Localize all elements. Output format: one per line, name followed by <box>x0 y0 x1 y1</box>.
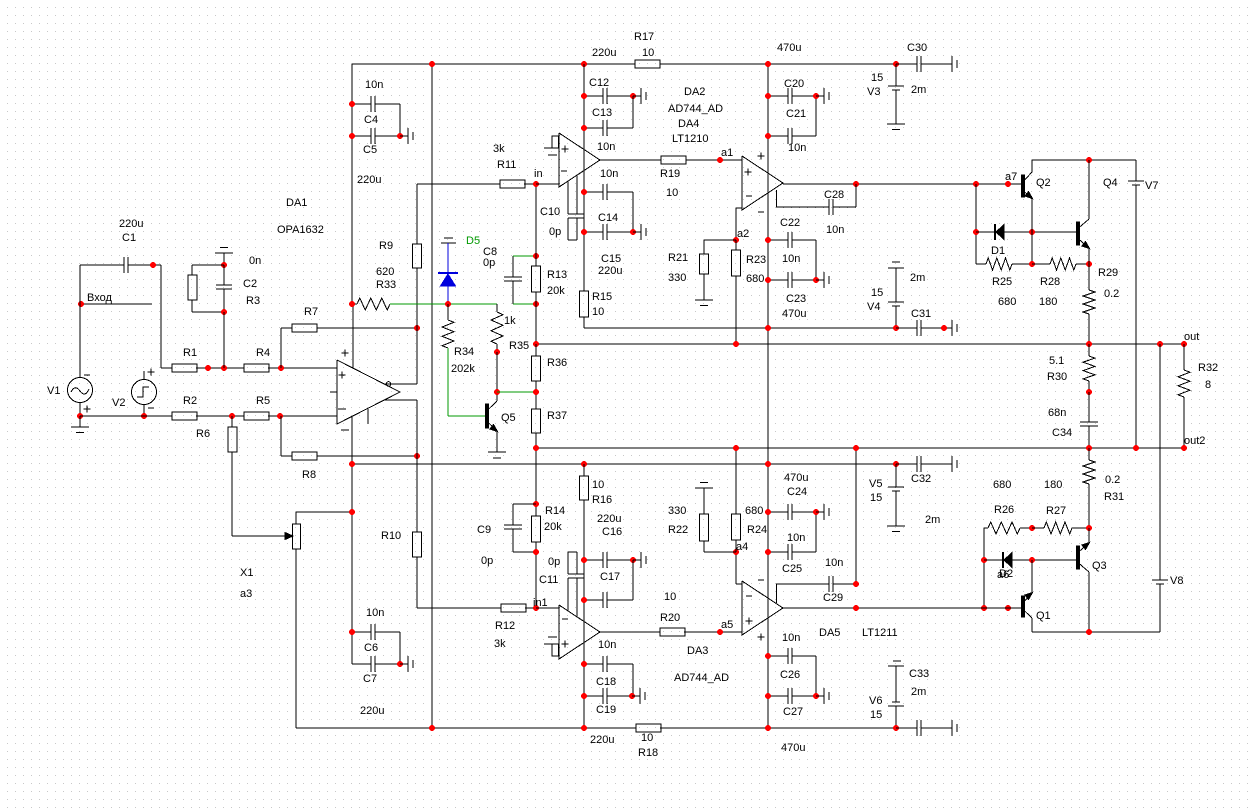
node dot DA4 out C28 <box>853 181 859 187</box>
svg-text:C34: C34 <box>1052 427 1072 439</box>
label C15 <box>601 253 621 265</box>
node dot C27 left <box>765 693 771 699</box>
label C33 <box>909 668 929 680</box>
node dot C13 left <box>581 125 587 131</box>
svg-text:2m: 2m <box>911 84 926 96</box>
svg-text:DA3: DA3 <box>687 645 708 657</box>
node dot C15 left <box>581 229 587 235</box>
source V2 <box>132 371 157 416</box>
label V2 minus <box>148 407 154 409</box>
svg-text:10: 10 <box>666 187 678 199</box>
node dot R1/R3 junction <box>221 365 227 371</box>
label C10 <box>540 206 560 218</box>
label R16 <box>592 494 612 506</box>
svg-text:V6: V6 <box>869 695 882 707</box>
node dot top rail x584 <box>581 61 587 67</box>
node dot D2 Q1emitter <box>1029 557 1035 563</box>
svg-text:C1: C1 <box>122 232 136 244</box>
svg-text:C12: C12 <box>589 77 609 89</box>
label C8 value 0p <box>483 257 495 269</box>
node dot R23 bottom <box>733 341 739 347</box>
svg-text:DA2: DA2 <box>684 86 705 98</box>
wire input bottom y=416 <box>80 415 337 417</box>
capacitor C19 <box>584 688 633 704</box>
label R32 value 8 <box>1205 379 1211 391</box>
capacitor C5 <box>352 128 400 144</box>
node dot out2 x1184 <box>1181 445 1187 451</box>
node dot R3/C2 top <box>221 262 227 268</box>
svg-text:180: 180 <box>1039 296 1057 308</box>
svg-text:C32: C32 <box>911 473 931 485</box>
wire x=584 upper column <box>583 64 585 328</box>
svg-text:C33: C33 <box>909 668 929 680</box>
label node in1 <box>533 597 548 609</box>
capacitor C16 <box>584 552 633 568</box>
node dot C23 left <box>765 277 771 283</box>
diode D5 <box>438 243 458 304</box>
label R9 <box>379 240 393 252</box>
resistor R37 <box>532 409 541 516</box>
svg-text:0p: 0p <box>483 257 495 269</box>
ground above D5 <box>441 238 456 243</box>
label C31 <box>911 308 931 320</box>
capacitor C28 <box>776 184 856 215</box>
resistor R23 <box>732 240 741 344</box>
wire x1160 down <box>1159 344 1161 580</box>
label C21 value 10n <box>788 142 806 154</box>
svg-text:C28: C28 <box>824 189 844 201</box>
wire vertical rail x=768 <box>767 64 769 728</box>
node dot out rail x1160 <box>1157 341 1163 347</box>
resistor R11 3k <box>417 180 536 188</box>
svg-text:C22: C22 <box>780 217 800 229</box>
label C12 <box>589 77 609 89</box>
label C24 value 470u <box>784 472 808 484</box>
wire mid out rail y=344 <box>536 343 1184 345</box>
battery V5 <box>887 464 905 532</box>
label C19 <box>596 704 616 716</box>
node dot after R4 <box>278 365 284 371</box>
svg-text:0.2: 0.2 <box>1104 288 1119 300</box>
svg-text:R9: R9 <box>379 240 393 252</box>
capacitor C11 <box>568 552 584 617</box>
ground above R3/C2 <box>215 248 233 266</box>
label C27 <box>783 706 803 718</box>
capacitor C6 <box>352 624 400 664</box>
svg-text:0p: 0p <box>548 556 560 568</box>
label R3 <box>246 295 260 307</box>
label R2 <box>183 395 197 407</box>
svg-text:680: 680 <box>745 505 763 517</box>
ground right of C24 <box>816 504 829 520</box>
label C13 <box>592 107 612 119</box>
node dot Q5 collector <box>494 389 500 395</box>
svg-text:220u: 220u <box>357 174 381 186</box>
svg-text:V2: V2 <box>112 397 125 409</box>
svg-text:R16: R16 <box>592 494 612 506</box>
label C5 value 220u <box>357 174 381 186</box>
node dot D5/R33/R34 <box>445 301 451 307</box>
svg-text:180: 180 <box>1044 479 1062 491</box>
label C26 value 10n <box>782 632 800 644</box>
label R15 <box>592 291 612 303</box>
svg-text:220u: 220u <box>592 47 616 59</box>
svg-text:10: 10 <box>592 479 604 491</box>
label DA3 type AD744_AD <box>674 672 729 684</box>
ground right of C30 <box>944 56 957 72</box>
wire Q1/Q3 collectors y632 <box>1032 631 1160 633</box>
label C30 value 2m <box>911 84 926 96</box>
svg-text:a2: a2 <box>737 228 749 240</box>
label V5 value 15 <box>870 492 882 504</box>
node dot R33 left <box>349 301 355 307</box>
svg-text:V4: V4 <box>867 301 880 313</box>
label DA1 plus input <box>339 372 346 379</box>
svg-text:DA1: DA1 <box>286 197 307 209</box>
svg-text:R23: R23 <box>746 254 766 266</box>
resistor R3 <box>188 265 224 312</box>
wire DA4 minus input <box>736 208 742 240</box>
svg-text:V8: V8 <box>1170 575 1183 587</box>
label R30 <box>1047 371 1067 383</box>
svg-text:C21: C21 <box>786 108 806 120</box>
svg-text:2m: 2m <box>911 686 926 698</box>
svg-text:680: 680 <box>993 479 1011 491</box>
ground right end of y=464 rail <box>944 456 957 472</box>
svg-text:0n: 0n <box>249 255 261 267</box>
svg-text:10: 10 <box>642 47 654 59</box>
capacitor C7 <box>352 656 400 672</box>
label C33 value 2m <box>911 686 926 698</box>
ground right of C23 <box>816 272 829 288</box>
resistor R19 <box>661 156 742 164</box>
resistor R27 <box>1032 522 1089 534</box>
node dot C8 top <box>533 253 539 259</box>
svg-text:10n: 10n <box>598 639 616 651</box>
label C10 value 0p <box>549 226 561 238</box>
label DA2 block <box>684 86 705 98</box>
resistor R20 <box>660 628 742 636</box>
node dot rail728 x896 <box>893 725 899 731</box>
node dot x536 y552 <box>533 549 539 555</box>
resistor R29 <box>1083 290 1095 344</box>
label DA5 plus in <box>746 618 753 625</box>
label C4 <box>364 114 378 126</box>
node dot after R5 <box>277 413 283 419</box>
svg-text:R35: R35 <box>509 340 529 352</box>
wire Вход stub <box>81 303 152 305</box>
ground right end of y=328 wire <box>944 320 957 336</box>
node dot R8 feedback <box>414 453 420 459</box>
svg-text:R36: R36 <box>547 357 567 369</box>
svg-text:C9: C9 <box>477 524 491 536</box>
node dot C19 right <box>629 693 635 699</box>
op-amp DA1 OPA1632 <box>330 360 400 424</box>
svg-text:R17: R17 <box>634 31 654 43</box>
label R26 value 680 <box>993 479 1011 491</box>
label R32 <box>1198 362 1218 374</box>
svg-text:0.2: 0.2 <box>1105 474 1120 486</box>
label DA1 <box>286 197 307 209</box>
label C6 value 10n <box>366 607 384 619</box>
svg-text:330: 330 <box>668 505 686 517</box>
svg-text:15: 15 <box>871 287 883 299</box>
label DA4 plus in <box>745 169 752 176</box>
label C16 <box>602 526 622 538</box>
svg-text:10n: 10n <box>600 168 618 180</box>
label R37 <box>547 410 567 422</box>
svg-text:Вход: Вход <box>87 292 112 304</box>
node dot DA5 out C29 <box>853 605 859 611</box>
label node out2 <box>1184 435 1205 447</box>
node dot C21 left <box>765 133 771 139</box>
svg-text:D1: D1 <box>991 245 1005 257</box>
label 220u bottom rail <box>590 734 614 746</box>
node dot C25 left <box>765 549 771 555</box>
node dot rail464 x584 <box>581 461 587 467</box>
svg-text:D5: D5 <box>466 235 480 247</box>
node dot C29 right top <box>853 445 859 451</box>
label C2 <box>243 278 257 290</box>
label C32 value 2m <box>925 514 940 526</box>
svg-text:15: 15 <box>870 709 882 721</box>
svg-text:220u: 220u <box>590 734 614 746</box>
label C24 <box>787 486 807 498</box>
label R34 value 202k <box>451 363 475 375</box>
label node out <box>1184 331 1199 343</box>
svg-text:R29: R29 <box>1098 267 1118 279</box>
ground above R22 <box>695 483 713 489</box>
label R18 value 10 <box>641 732 653 744</box>
wire green R34 to Q5 base <box>448 348 486 416</box>
capacitor C26 <box>768 648 816 696</box>
capacitor C29 <box>776 448 856 603</box>
capacitor C24 <box>768 504 816 552</box>
svg-text:R22: R22 <box>668 524 688 536</box>
node dot after R1 <box>205 365 211 371</box>
label R19 value 10 <box>666 187 678 199</box>
label V4 value 15 <box>871 287 883 299</box>
svg-text:620: 620 <box>376 266 394 278</box>
svg-text:C23: C23 <box>786 293 806 305</box>
label R31 value 0.2 <box>1105 474 1120 486</box>
label C9 value 0p <box>481 555 493 567</box>
battery V3 <box>888 64 904 124</box>
label R24 value 680 <box>745 505 763 517</box>
svg-text:220u: 220u <box>119 218 143 230</box>
svg-text:680: 680 <box>998 296 1016 308</box>
label R6 <box>196 428 210 440</box>
label DA4 Vminus <box>758 211 764 213</box>
svg-text:10n: 10n <box>597 141 615 153</box>
node dot x976 y232 <box>973 229 979 235</box>
node dot y328 x896 <box>893 325 899 331</box>
battery V4 <box>888 262 904 328</box>
svg-text:Q3: Q3 <box>1092 560 1107 572</box>
node dot C24 right <box>813 509 819 515</box>
svg-text:V5: V5 <box>869 478 882 490</box>
resistor R34 <box>442 304 454 348</box>
label R8 <box>302 469 316 481</box>
node dot C4 left <box>349 101 355 107</box>
wire R35 to Q5 collector <box>496 352 498 401</box>
node dot C18 left <box>581 661 587 667</box>
label node a6 <box>997 569 1009 581</box>
label DA4 minus in <box>746 195 752 197</box>
svg-text:a5: a5 <box>721 619 733 631</box>
ground under V3 <box>887 124 905 130</box>
label C14 value 10n <box>600 168 618 180</box>
label R7 <box>304 306 318 318</box>
label R22 value 330 <box>668 505 686 517</box>
node dot rail464 x896 <box>893 461 899 467</box>
svg-text:DA5: DA5 <box>819 627 840 639</box>
resistor R35 1k <box>491 304 503 352</box>
wire vertical rail x=432 <box>431 64 433 728</box>
label C22 value 10n <box>782 253 800 265</box>
label C28 <box>824 189 844 201</box>
svg-text:Q2: Q2 <box>1036 177 1051 189</box>
node dot top rail x768 <box>765 61 771 67</box>
wire C1 to R1 corner <box>161 265 172 368</box>
node dot DA4 out x976 <box>973 181 979 187</box>
resistor R21 <box>700 240 737 300</box>
label DA1 Vminus <box>341 429 349 431</box>
label DA3 plus <box>562 641 569 648</box>
resistor R17 <box>635 60 660 68</box>
resistor R31 <box>1083 448 1095 528</box>
label 10n near DA3 <box>598 639 616 651</box>
svg-text:R34: R34 <box>454 346 474 358</box>
svg-text:AD744_AD: AD744_AD <box>674 672 729 684</box>
svg-text:10n: 10n <box>366 607 384 619</box>
label R36 <box>547 357 567 369</box>
node dot rail728 x432 <box>429 725 435 731</box>
svg-text:X1: X1 <box>240 567 253 579</box>
label C5 <box>363 144 377 156</box>
svg-text:C24: C24 <box>787 486 807 498</box>
capacitor C17 <box>584 560 633 608</box>
capacitor C2 <box>216 265 232 312</box>
node dot x536 y344 <box>533 341 539 347</box>
label R1 <box>183 347 197 359</box>
label DA1 type OPA1632 <box>277 224 324 236</box>
label R35 <box>509 340 529 352</box>
label C8 <box>483 246 497 258</box>
svg-text:R25: R25 <box>992 276 1012 288</box>
transistor Q5 <box>486 401 498 452</box>
label R9 value 620 <box>376 266 394 278</box>
resistor R9 <box>413 244 422 268</box>
svg-text:a6: a6 <box>997 569 1009 581</box>
label C34 value 68n <box>1048 407 1066 419</box>
label R29 value 0.2 <box>1104 288 1119 300</box>
resistor R36 <box>532 344 541 409</box>
label R26 <box>994 504 1014 516</box>
svg-text:C26: C26 <box>780 669 800 681</box>
node dot a2 <box>733 237 739 243</box>
op-amp DA4 <box>742 156 783 210</box>
battery V7 <box>1128 160 1144 448</box>
wire DA2 output <box>600 159 661 161</box>
ground right of C7 <box>400 656 413 672</box>
svg-text:C20: C20 <box>784 78 804 90</box>
svg-text:R8: R8 <box>302 469 316 481</box>
node dot top rail x432 <box>429 61 435 67</box>
label Q3 <box>1092 560 1107 572</box>
node dot C15 right <box>630 229 636 235</box>
source V1 <box>68 265 93 416</box>
node dot Вход <box>78 301 84 307</box>
capacitor C9 <box>504 504 536 552</box>
label DA4 type LT1210 <box>672 133 709 145</box>
node dot rail464 x768 <box>765 461 771 467</box>
wire column x=536 upper <box>535 184 537 344</box>
svg-text:R1: R1 <box>183 347 197 359</box>
label DA1 Vplus <box>342 350 349 357</box>
node dot a5 <box>717 629 723 635</box>
resistor R2 <box>172 412 197 420</box>
svg-text:R2: R2 <box>183 395 197 407</box>
svg-text:R12: R12 <box>495 620 515 632</box>
svg-text:1k: 1k <box>504 315 516 327</box>
node dot out rail x1089 <box>1086 341 1092 347</box>
ground under V1 <box>71 413 89 433</box>
node dot R28 right <box>1086 261 1092 267</box>
capacitor C20 <box>768 88 816 136</box>
label C34 <box>1052 427 1072 439</box>
label R31 <box>1104 491 1124 503</box>
node dot C14 left <box>581 189 587 195</box>
svg-text:R4: R4 <box>256 347 270 359</box>
DA3 plus input ground glyph <box>544 637 559 656</box>
label R20 <box>660 612 680 624</box>
label C2 value 0n <box>249 255 261 267</box>
node dot out2 x1136 <box>1133 445 1139 451</box>
capacitor C31 <box>896 320 944 336</box>
label R23 value 680 <box>746 273 764 285</box>
label R29 <box>1098 267 1118 279</box>
wire top supply rail y=64 <box>352 63 896 65</box>
label V5 <box>869 478 882 490</box>
label R13 value 20k <box>547 285 565 297</box>
label C11 <box>539 574 558 586</box>
svg-text:V1: V1 <box>47 385 60 397</box>
capacitor C32 <box>896 456 944 472</box>
label R24 <box>747 524 767 536</box>
diode D2 <box>984 552 1077 568</box>
resistor R4 <box>244 364 337 372</box>
label R5 <box>256 395 270 407</box>
resistor R26 <box>984 522 1032 534</box>
svg-text:C25: C25 <box>782 563 802 575</box>
svg-text:Q1: Q1 <box>1036 610 1051 622</box>
node dot C29 corner <box>853 581 859 587</box>
svg-text:R26: R26 <box>994 504 1014 516</box>
resistor R10 <box>413 532 422 557</box>
node dot DA5 out x984 <box>981 605 987 611</box>
node dot R2/R6 junction <box>229 413 235 419</box>
label R35 value 1k <box>504 315 516 327</box>
capacitor C30 <box>896 56 944 72</box>
label Q2 <box>1036 177 1051 189</box>
ground right of C19 <box>632 688 645 704</box>
label R28 <box>1040 276 1060 288</box>
node dot DA5 out x1008 <box>1005 605 1011 611</box>
svg-text:a3: a3 <box>240 588 252 600</box>
wire x=352 lower segment <box>351 464 353 664</box>
svg-text:R6: R6 <box>196 428 210 440</box>
